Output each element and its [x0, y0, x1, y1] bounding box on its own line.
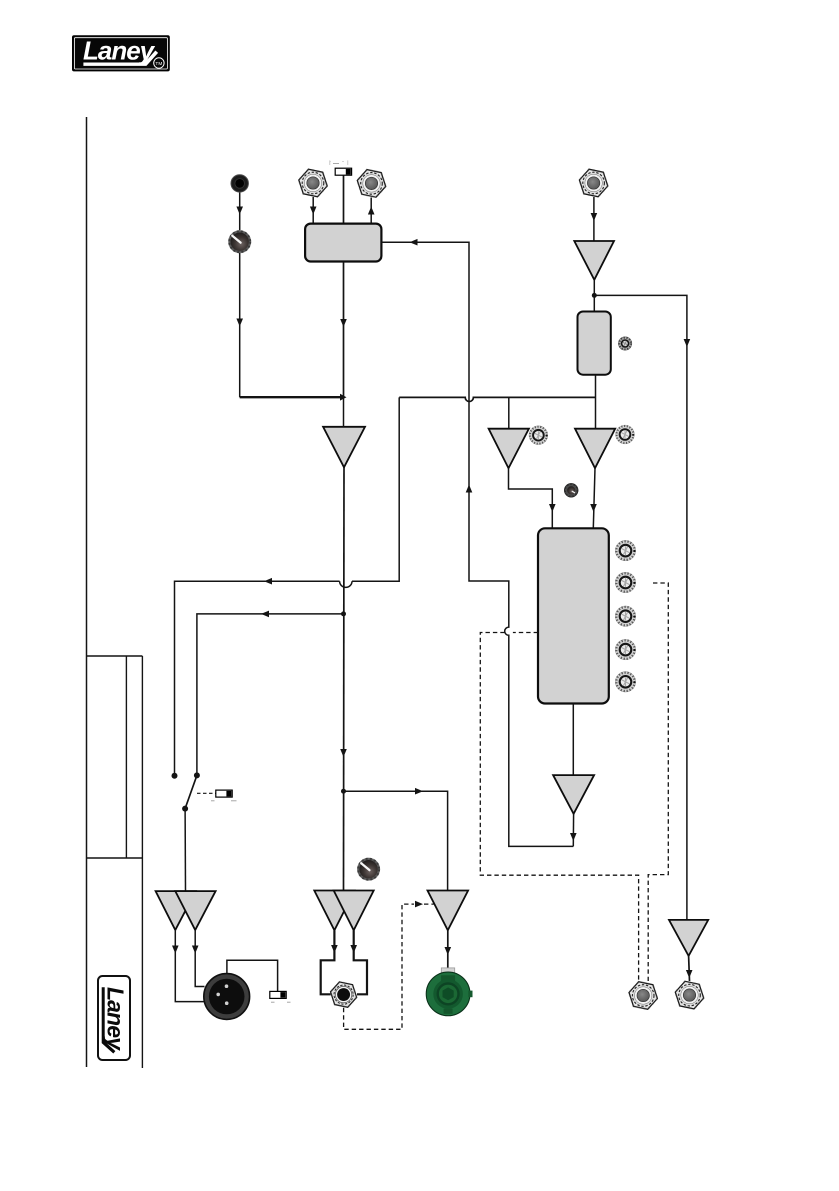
page margin rule (left border) [86, 117, 88, 1067]
node dot C [341, 789, 346, 794]
wire: preamp box output down to node with arrow [343, 262, 345, 398]
wire: Q2 output to XLR [195, 930, 204, 987]
wire: preamp box up to J2 with up arrow [370, 198, 372, 224]
wire: master block to driver amp [572, 704, 574, 776]
wire: U9 to speakon [447, 930, 449, 972]
dashed wire from pot P6 to footswitch jack [648, 583, 668, 981]
svg-text:TM: TM [155, 61, 162, 67]
pot P9 [615, 672, 635, 692]
line out amp U10 [669, 920, 708, 956]
side tab box lower [87, 858, 143, 1068]
hop on channel wire over centre line [340, 581, 352, 587]
pot P6 [615, 572, 635, 592]
pot P7 [615, 606, 635, 626]
jack J3 (return / aux in, top right) [579, 169, 607, 197]
channel switch S2 [172, 772, 200, 811]
headphone amp pair Q3/Q4 [314, 891, 354, 931]
level knob [357, 858, 380, 881]
wire: switch to preamp box [343, 175, 345, 223]
pot P2 [529, 426, 548, 445]
driver amp U8 [553, 775, 594, 814]
wire: switch pole down to power amps [184, 809, 186, 891]
master block U7 [538, 528, 609, 703]
wire: J3 down to buffer with arrow [593, 197, 595, 241]
wire: bus down to FX send amp [508, 397, 510, 428]
switch icon S3 label marks [211, 800, 237, 802]
wire: XLR earth lift loop [227, 960, 278, 991]
centre line: bus node down through U4 to power amps [343, 397, 345, 427]
node dot A [592, 293, 597, 298]
wire: U5 output into master block [509, 468, 553, 528]
pot P8 [615, 639, 635, 659]
earth lift switch S4 [270, 991, 286, 998]
line out jack J5 [675, 981, 703, 1009]
dashed link to footswitch icon [197, 792, 216, 794]
wire: buffer to EQ block [593, 280, 595, 312]
wire: Q3 output bracket to phones jack [321, 930, 335, 994]
pot P1 (beside EQ block) [618, 337, 631, 350]
node dot B [341, 611, 346, 616]
wire: U10 to line out jack [688, 956, 691, 981]
pot P5 [615, 540, 635, 560]
dashed wire: phones jack mute to speaker amp [344, 904, 434, 1029]
switch icon S3 [216, 790, 232, 797]
wire: EQ block down to bus [595, 375, 597, 429]
power amp pair Q1/Q2 (DI drive) [156, 891, 196, 930]
speaker amp U9 [428, 891, 469, 931]
wire: J1 to preamp box with arrow [312, 197, 314, 224]
EQ block U3 [578, 312, 611, 375]
earth lift switch label marks [271, 1001, 291, 1003]
wire: driver amp output down [572, 814, 574, 847]
jack J1 (instrument input hi) [299, 169, 327, 197]
phones jack J4 [331, 982, 357, 1007]
input connector (black socket) [231, 175, 248, 192]
svg-text:Laney: Laney [103, 987, 129, 1051]
XLR DI connector [204, 974, 250, 1020]
FX send amp U5 [489, 429, 529, 469]
wire: knob down to junction, with arrow [239, 253, 241, 397]
arrowhead down [236, 207, 243, 215]
FX return amp U6 [575, 429, 615, 469]
bright switch S1 [335, 168, 351, 175]
side tab box upper [87, 656, 143, 858]
svg-text:Laney: Laney [83, 35, 156, 65]
footswitch jack J6 [629, 982, 657, 1010]
gain knob [228, 230, 251, 253]
dashed fx loop wire (block to footswitch jack) [480, 633, 638, 982]
jack J2 (low input / slave) [357, 170, 385, 198]
Laney logo (top left) [73, 35, 170, 70]
wire: channel path to switch contact [175, 581, 340, 776]
feedback wire: output stage back to preamp box [381, 242, 573, 846]
wire: Q4 output bracket to phones jack [354, 930, 367, 994]
wire: channel path corner down [352, 397, 399, 581]
wire: Q1 output to XLR [175, 930, 204, 1002]
preamp gain triangle U4 [323, 427, 365, 468]
pot P3 [616, 425, 635, 444]
buffer amp U2 [574, 241, 614, 280]
preamp box U1 [305, 224, 381, 262]
Laney logo (rotated, side tab) [98, 976, 130, 1060]
wire: channel 2 select [197, 614, 344, 776]
wire: horizontal into centre node [240, 396, 341, 398]
wire: node A to right rail [594, 295, 687, 920]
wire: U6 output into master block [593, 468, 595, 528]
bright switch label marks [330, 162, 344, 164]
speakon connector [426, 968, 472, 1016]
wire: input connector to gain knob [239, 188, 241, 234]
main bus wire with hop [399, 397, 595, 401]
wire: branch to speaker amp [344, 791, 448, 890]
pot P4 (small dark) [564, 484, 578, 498]
